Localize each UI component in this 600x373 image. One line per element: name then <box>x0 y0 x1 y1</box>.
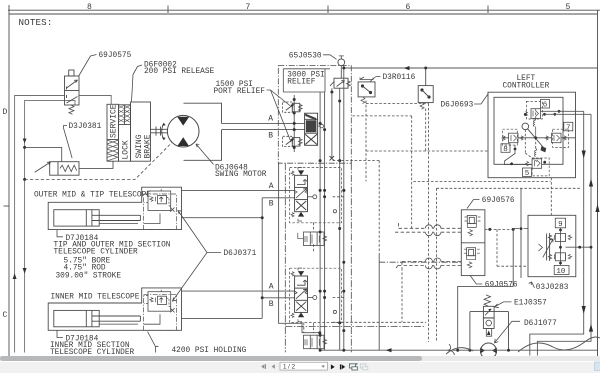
wire B section2 <box>182 298 295 319</box>
nav page input box <box>280 362 328 370</box>
dashed box top valve <box>526 101 542 119</box>
leader bottom <box>470 275 483 284</box>
dashed box bottom valve <box>532 158 549 176</box>
x mark on dashdot <box>330 156 335 161</box>
leader 69J0575 <box>79 55 97 77</box>
dash-dot box holding valve 1 <box>144 194 177 230</box>
pilot feed pair to bottom cartridge <box>395 262 461 270</box>
break wave large bottom right <box>446 337 600 354</box>
cylinder 1 internal pipe <box>144 214 160 224</box>
outputs of 69J0576 <box>485 229 528 266</box>
holding valve 1 drain x-mark <box>170 208 174 212</box>
dash-dot box holding valve 2 <box>144 295 177 331</box>
zone tick left D/C <box>4 205 10 207</box>
holding valve 2 drain x-mark <box>170 308 174 312</box>
dash-dot into 03J0283 port 9 <box>513 228 528 230</box>
cylinder 2 rod <box>92 316 140 321</box>
relief valve D3J0381 <box>35 162 79 176</box>
leader D6J1077 <box>495 321 521 343</box>
cylinder 2 internal pipe <box>144 314 160 324</box>
wire gauge to relief and right <box>340 66 342 78</box>
junction dots 03J0283 <box>559 229 562 265</box>
relief valve 3000psi symbol <box>330 78 351 88</box>
holding valve 1 cartridge <box>150 196 171 207</box>
zone border top line <box>8 9 600 11</box>
PDF viewer horizontal scrollbar <box>0 356 600 361</box>
bottom main return wire <box>320 349 597 351</box>
cylinder 1 rod <box>92 215 140 220</box>
leader bracket D7J0184 (2) <box>57 330 63 337</box>
port number 9 <box>555 218 565 228</box>
cylinder 1 enclosure <box>48 187 181 229</box>
port number 10 <box>554 265 569 274</box>
nav prev button <box>272 364 275 369</box>
port relief swing B <box>283 136 303 146</box>
junction dot left return/relief <box>23 146 26 149</box>
pump D6J1077 circle <box>481 343 497 359</box>
gallery dots section2 <box>319 290 346 333</box>
cartridge lower 03J0283 <box>548 253 571 261</box>
return riser <box>279 163 320 333</box>
leader E1J0357 <box>495 302 512 308</box>
gauge port 65J0530 <box>338 59 345 66</box>
sheet inner border top <box>9 13 598 15</box>
holding valve 1 inner box <box>148 191 171 211</box>
dashed pilot D3R0116-2 drop <box>366 109 488 152</box>
junction dot left return/pilot dashed <box>23 178 26 181</box>
leaders D6J0371 <box>173 211 222 302</box>
arrow down on left return wire <box>23 139 27 144</box>
junction dots 3000 block <box>293 67 346 192</box>
3000 psi relief block boundary (dash-dot) <box>278 66 351 164</box>
dashed drop to section2 pilot valve <box>304 298 344 333</box>
port relief swing A <box>283 102 303 112</box>
wire from valve 69J0575 left port to far-left drop <box>15 96 65 353</box>
cartridge top 69J0576 <box>465 216 481 236</box>
dashed box right valve <box>553 129 569 147</box>
cylinder 1 piston <box>85 210 87 226</box>
counterbalance valve section1 <box>298 232 327 246</box>
left controller outer box <box>488 92 576 178</box>
dashed controller bottom runs <box>413 180 550 182</box>
leader bracket D7J0184 (1) <box>57 230 63 237</box>
motor triangle bottom <box>177 137 189 146</box>
nav last-page button <box>340 364 341 369</box>
zone tick top 6/5 <box>487 6 489 14</box>
controller reducing valve top <box>525 109 541 138</box>
brake output shaft to motor <box>151 127 168 136</box>
spring E1J0357 <box>484 295 491 306</box>
cylinder 2 barrel <box>54 310 99 326</box>
leader D3J0381 <box>64 126 73 159</box>
rocker lever 03J0283 <box>539 233 554 261</box>
controller junction dots <box>510 110 560 165</box>
cartridge upper 03J0283 <box>548 228 571 266</box>
wire B section1 <box>182 198 295 319</box>
solenoid triangle top (1) <box>298 170 304 175</box>
manifold verticals inside 3000 block <box>294 66 344 351</box>
controller port number 8 <box>501 144 510 153</box>
dashed pilot line to motor case <box>25 143 172 180</box>
leader 03J0283 <box>529 282 535 288</box>
solenoid triangle top (2) <box>298 271 304 276</box>
solenoid cartridge D3R0116 first <box>358 77 375 104</box>
page view icon disabled <box>360 364 367 370</box>
wire swing port A <box>222 122 305 124</box>
gallery dots section1 <box>319 189 346 264</box>
pilot feed pair to top cartridge <box>395 223 461 232</box>
zone tick top 8/7 <box>167 6 169 14</box>
section1 valve drain + orifice <box>308 196 313 198</box>
wire top distribution to right edge <box>345 67 598 69</box>
cylinder 2 piston <box>85 310 87 326</box>
solid wire from junction down to pump loop <box>458 229 514 350</box>
leader D3R0116 <box>370 77 381 82</box>
dashed envelope section1 <box>290 168 342 223</box>
orifice circle on pilot drop section2 <box>333 310 336 313</box>
arrow in lower box <box>487 330 491 335</box>
controller reducing valve left <box>502 133 523 143</box>
cylinder 2 enclosure <box>48 288 181 330</box>
solid drop from dashed tie to bottom wire <box>378 255 380 350</box>
hatch lock cell <box>107 105 131 161</box>
arrow left on bottom wire <box>386 348 392 352</box>
long dash-dot pilot main <box>285 163 351 352</box>
section2 valve drain + orifice <box>308 297 313 299</box>
arrow up riser 2 lower <box>589 324 593 332</box>
page view icon active <box>350 363 358 370</box>
motor triangle top <box>177 117 189 126</box>
zone border left line <box>8 5 10 356</box>
holding valve 2 inner box <box>148 292 171 312</box>
solenoid valve 69J0575 <box>65 70 80 114</box>
leaders to port reliefs <box>267 90 292 142</box>
spring of 69J0575 <box>69 105 74 114</box>
arrow up on far-left wire <box>13 273 17 279</box>
left controller inner box <box>494 97 563 164</box>
adjust arrow D3J0381 <box>35 162 51 172</box>
leader D6F0002 <box>132 65 143 102</box>
zone tick top 7/6 <box>327 6 329 14</box>
label box 3000 PSI RELIEF <box>283 69 330 92</box>
counterbalance valve section2 <box>304 335 327 349</box>
leader 65J0530 <box>323 55 337 60</box>
leader top <box>467 200 480 209</box>
dashed pilot D3R0116-1 drop <box>366 101 429 343</box>
arrow down riser 1 lower <box>582 306 586 314</box>
orifice circle on pilot drop section1 <box>333 210 336 213</box>
pump enclosure lines <box>470 312 509 351</box>
arrow left on top wire <box>404 66 410 70</box>
section valve 2 (directional) <box>295 276 308 312</box>
controller reducing valve right <box>545 133 566 143</box>
swing motor D6J0648 circle <box>167 115 199 147</box>
section valve 1 (directional) <box>295 175 308 211</box>
wire A section1 <box>182 189 295 191</box>
controller reducing valve bottom <box>526 149 542 169</box>
nav next button <box>331 364 335 369</box>
controller port number 6 <box>541 100 550 109</box>
nav first-page button <box>261 364 266 369</box>
arrow up riser 2 <box>589 179 593 187</box>
leader 4200 PSI HOLDING <box>148 332 159 353</box>
controller wires to right risers <box>530 68 598 356</box>
svg-text:1 / 2: 1 / 2 <box>283 364 296 371</box>
controller lever rod <box>528 129 543 147</box>
pump flow arrows <box>480 348 485 354</box>
PDF viewer bottom toolbar <box>0 362 600 373</box>
controller joystick pivot circle <box>522 123 529 130</box>
wire 69J0575 right port to brake block top <box>79 96 111 105</box>
arrow down riser 1 <box>582 151 586 159</box>
solenoid triangle bottom (2) <box>298 312 304 317</box>
motor enclosure outline <box>184 103 222 160</box>
controller handle <box>541 146 547 152</box>
long dashed cross run to sections <box>333 268 427 322</box>
arrow down on left return wire lower <box>23 268 27 274</box>
valve pair housing <box>461 210 485 276</box>
dashed drop to section1 pilot valve <box>314 197 344 253</box>
junction dots bottom wire <box>319 349 510 352</box>
solenoid cartridge D3R0116 second <box>418 68 433 109</box>
sheet right edge <box>597 10 599 356</box>
controller internal links <box>505 109 538 165</box>
cartridge bottom 69J0576 <box>464 248 480 268</box>
break wave marks bottom wire <box>448 344 455 355</box>
wire D3J0381 outlet to brake block <box>79 161 113 168</box>
rotation arrows at motor shaft <box>162 123 166 141</box>
holding valve 2 cartridge <box>150 296 171 307</box>
dashed box left valve <box>503 129 518 145</box>
leader D6J0693 <box>474 94 488 104</box>
spring inside D3J0381 <box>60 165 77 171</box>
dashed envelope section2 <box>290 268 342 322</box>
controller pilot drops <box>520 188 522 278</box>
wire swing port B <box>222 129 305 131</box>
leader D6J0648 <box>196 144 214 165</box>
swing brake block SERVICE/LOCK <box>107 104 131 161</box>
wire 69J0575 bottom port to left return drop <box>25 100 75 352</box>
swing brake housing box <box>131 102 151 161</box>
dashed horizontal mid (sections tie) <box>333 161 380 256</box>
crossover directional element (dark) <box>305 113 318 145</box>
wire A section2 <box>182 290 295 292</box>
controller port number 7 <box>564 122 573 131</box>
arrow up far right riser <box>595 204 599 212</box>
dashed pilot to 69J0576 feeds <box>412 116 437 342</box>
drain stub with orifice <box>318 125 320 127</box>
wire junction to D3J0381 relief inlet <box>25 147 62 161</box>
cylinder 1 barrel <box>54 210 99 226</box>
solenoid triangle bottom (1) <box>298 212 304 217</box>
relief body E1J0357 <box>483 306 494 336</box>
controller central row <box>503 137 576 139</box>
junction dot top wire <box>424 67 427 70</box>
scroll corner chip <box>595 362 600 371</box>
output stub right <box>566 246 591 248</box>
controller port number 5 <box>523 168 532 177</box>
